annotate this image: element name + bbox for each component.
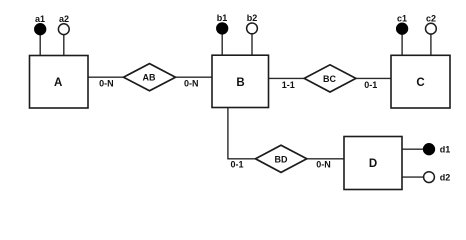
wire b1 to B	[221, 34, 223, 56]
wire D to d1	[402, 148, 423, 150]
wire c2 to C	[430, 34, 432, 56]
svg-text:AB: AB	[143, 73, 156, 83]
entity B	[212, 55, 269, 107]
svg-text:BC: BC	[323, 74, 336, 84]
relationship BC	[304, 65, 356, 92]
wire A to AB	[88, 76, 124, 78]
svg-text:a1: a1	[35, 14, 45, 24]
wire BD to D	[306, 158, 344, 160]
attribute b2	[247, 13, 258, 34]
svg-text:0-N: 0-N	[99, 78, 114, 88]
attribute b1	[217, 13, 228, 34]
wire a1 to A	[39, 34, 41, 56]
svg-text:A: A	[54, 77, 62, 89]
attribute d2	[424, 172, 451, 183]
svg-text:BD: BD	[275, 154, 288, 164]
svg-text:0-N: 0-N	[184, 78, 199, 88]
wire a2 to A	[63, 34, 65, 56]
entity C	[391, 55, 450, 108]
wire B to BC	[269, 77, 305, 79]
relationship AB	[124, 64, 176, 91]
wire B to BD	[228, 108, 256, 159]
entity D	[344, 137, 402, 190]
svg-text:1-1: 1-1	[282, 80, 295, 90]
svg-text:D: D	[369, 158, 377, 170]
svg-text:d2: d2	[440, 173, 451, 183]
svg-text:c2: c2	[426, 13, 436, 23]
svg-text:B: B	[236, 77, 244, 89]
svg-text:b2: b2	[247, 13, 258, 23]
wire b2 to B	[251, 34, 253, 56]
svg-text:0-N: 0-N	[316, 160, 331, 170]
wire c1 to C	[401, 34, 403, 56]
wire BC to C	[355, 77, 391, 79]
svg-text:b1: b1	[217, 13, 228, 23]
wire AB to B	[175, 76, 212, 78]
attribute a2	[58, 14, 69, 35]
entity A	[30, 56, 89, 109]
svg-text:a2: a2	[59, 14, 69, 24]
svg-text:C: C	[416, 77, 424, 89]
svg-text:c1: c1	[397, 13, 407, 23]
attribute a1	[35, 14, 46, 35]
attribute c1	[397, 13, 408, 34]
svg-text:0-1: 0-1	[364, 80, 377, 90]
wire D to d2	[402, 176, 423, 178]
svg-text:0-1: 0-1	[230, 159, 243, 169]
attribute d1	[424, 144, 451, 155]
attribute c2	[426, 13, 437, 34]
relationship BD	[256, 145, 307, 172]
svg-text:d1: d1	[440, 145, 451, 155]
